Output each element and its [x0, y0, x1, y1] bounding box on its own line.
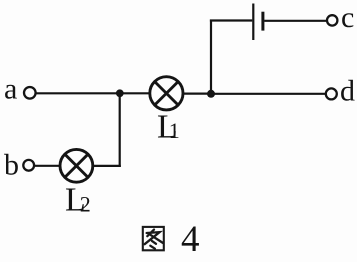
- svg-text:c: c: [341, 1, 354, 34]
- wire riser corner up to junction 1: [119, 94, 121, 167]
- svg-text:b: b: [4, 149, 19, 182]
- caption character tu (drawn): [143, 227, 164, 250]
- wire L2 to riser corner: [93, 165, 121, 167]
- label L2: [65, 182, 91, 219]
- battery B1: [253, 4, 263, 41]
- wire junction to L1: [121, 92, 150, 94]
- wire a to junction: [36, 92, 118, 94]
- terminal b: [23, 160, 34, 171]
- svg-text:a: a: [4, 73, 17, 106]
- lamp L2: [60, 149, 93, 182]
- lamp L1: [150, 77, 183, 110]
- terminal a: [24, 87, 36, 99]
- junction node 1: [116, 89, 124, 97]
- label L1: [157, 109, 180, 146]
- svg-text:2: 2: [80, 191, 91, 216]
- svg-text:4: 4: [181, 219, 200, 257]
- wire top to battery: [210, 19, 252, 21]
- wire riser junction 2 up: [210, 20, 212, 95]
- junction node 2: [207, 90, 215, 98]
- terminal d: [326, 88, 337, 99]
- wire L1 to junction 2: [183, 92, 210, 94]
- wire junction 2 to d: [212, 93, 325, 95]
- terminal c: [327, 15, 337, 25]
- wire battery to c: [264, 20, 326, 22]
- svg-text:d: d: [340, 75, 355, 108]
- svg-text:1: 1: [169, 118, 180, 143]
- wire b to L2: [34, 165, 60, 167]
